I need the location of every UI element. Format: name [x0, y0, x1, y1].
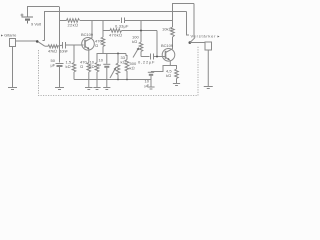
switch S1a pole dot	[36, 40, 39, 43]
wire y31 to corner x157	[122, 30, 157, 32]
svg-text:kΩ: kΩ	[130, 66, 135, 71]
capacitor C1 input coupling plates	[62, 42, 64, 49]
wire filter cap branch x59	[59, 7, 61, 63]
resistor R1 22k	[67, 19, 80, 23]
ground C4	[103, 87, 110, 89]
wire Q1 collector up to H3	[91, 21, 93, 39]
wire Q1 emitter down	[88, 49, 90, 63]
resistor R8 500	[126, 54, 127, 60]
labels	[1, 22, 220, 89]
resistor R4 470R emitter	[87, 63, 91, 73]
junction dot y31 x141	[140, 30, 142, 32]
capacitor C4 10uF electrolytic	[106, 54, 108, 64]
wire C2 to ground	[59, 67, 61, 88]
svg-text:▸ Gitarre: ▸ Gitarre	[1, 33, 17, 38]
wire effect output drop x194	[193, 4, 195, 38]
wire C1 to Q1 base	[66, 44, 84, 46]
svg-text:47kΩ: 47kΩ	[48, 48, 57, 53]
svg-text:10kΩ: 10kΩ	[162, 27, 172, 32]
potentiometer P1 body	[117, 54, 119, 64]
wire bus53	[103, 53, 126, 55]
wire Q2 emitter	[151, 60, 170, 71]
ground R7	[93, 87, 100, 89]
svg-text:Verstärker: Verstärker	[191, 34, 217, 39]
capacitor C3 0.1uF plates	[121, 18, 123, 24]
ground R4	[85, 87, 93, 89]
ground input jack	[8, 87, 17, 89]
potentiometer P2 100k body	[139, 42, 143, 52]
svg-text:kΩ: kΩ	[66, 64, 71, 69]
battery B1 9V	[21, 14, 34, 24]
wire top rail H1 from battery to filter node	[27, 6, 59, 8]
switch linkage dashed	[39, 46, 199, 96]
wire x157 down to Q2 base node	[156, 31, 158, 57]
resistor R3 1.5k drop from base node	[73, 45, 75, 63]
wire R5 to bus	[102, 47, 104, 54]
wire jack sleeve to ground	[12, 47, 14, 88]
svg-text:µ: µ	[99, 62, 102, 67]
junction dot base node	[156, 56, 158, 58]
svg-text:9 Volt: 9 Volt	[31, 22, 42, 27]
wire R4 to ground	[88, 72, 90, 88]
wire feedback line y31	[103, 30, 110, 32]
resistor R5 470 vertical	[101, 37, 105, 47]
svg-text:10nF: 10nF	[60, 48, 69, 53]
switch S1b lever	[190, 38, 195, 43]
wire P2 to C5	[141, 56, 150, 58]
resistor R6 470k horizontal	[110, 29, 122, 33]
ground C6	[147, 86, 154, 88]
svg-text:22kΩ: 22kΩ	[68, 22, 79, 27]
wire switch to output jack	[190, 42, 205, 44]
svg-text:kΩ: kΩ	[166, 73, 171, 78]
wire cap out node down x141	[140, 21, 142, 43]
resistor R2 47k	[48, 45, 58, 48]
wire collector node branch x103	[102, 21, 104, 38]
svg-text:0,22µF: 0,22µF	[138, 60, 155, 65]
svg-text:▸: ▸	[218, 34, 220, 39]
wire jack tip to switch	[16, 40, 37, 42]
wire R10 to ground	[176, 79, 178, 84]
ground output jack	[204, 86, 213, 88]
wire battery positive lead	[27, 7, 29, 17]
ground R10	[173, 83, 180, 85]
resistor R9 10k collector	[171, 27, 175, 37]
wire R2 to C1	[58, 44, 62, 47]
wire ground bus2	[74, 79, 151, 81]
svg-text:BC109: BC109	[161, 43, 174, 48]
wire lever to R2	[45, 45, 48, 47]
wire R7 top lead	[97, 54, 103, 57]
svg-text:µF: µF	[51, 63, 56, 68]
resistor R10 4.7k emitter	[175, 69, 179, 79]
svg-text:kΩ: kΩ	[132, 39, 137, 44]
wire C5 to Q2 base	[154, 56, 166, 58]
transistor Q2 BC109	[162, 49, 175, 62]
switch S1a lever	[37, 41, 44, 46]
svg-text:kΩ: kΩ	[90, 64, 95, 69]
potentiometer P1 wiper arrow	[110, 69, 115, 79]
wire R9 top to corner	[172, 21, 174, 28]
potentiometer P2 wiper arrow	[133, 49, 138, 58]
svg-text:BC109: BC109	[81, 32, 94, 37]
capacitor C2 50uF electrolytic plates	[56, 63, 64, 65]
wire H3 middle	[80, 20, 120, 22]
svg-text:kΩ: kΩ	[121, 60, 126, 65]
svg-text:µF: µF	[145, 83, 150, 88]
wire switch S1a contact drop	[44, 12, 46, 41]
resistor R7 10k	[96, 56, 98, 63]
capacitor C6 10uF emitter bypass	[148, 71, 154, 73]
output jack J2 body	[205, 42, 212, 50]
switch S1b bypass contact	[187, 12, 190, 36]
wire jack sleeve down	[207, 50, 209, 87]
transistor Q1 BC109	[82, 38, 95, 51]
svg-text:0,33µF: 0,33µF	[115, 23, 129, 28]
capacitor C5 0.22uF plates	[150, 54, 152, 60]
wire H3 right	[125, 20, 173, 22]
wire bypass rail H2	[44, 11, 187, 13]
svg-text:Ω: Ω	[95, 43, 98, 48]
wire supply/signal line H3	[59, 20, 67, 22]
svg-text:Ω: Ω	[80, 64, 83, 69]
wire Q2 collector up	[172, 37, 174, 49]
junction dot pot1 top	[117, 53, 119, 55]
svg-text:470kΩ: 470kΩ	[109, 33, 122, 38]
switch S1b pole dot	[189, 41, 192, 44]
input jack J1 body	[10, 39, 16, 47]
wire emitter to R10	[170, 66, 176, 70]
